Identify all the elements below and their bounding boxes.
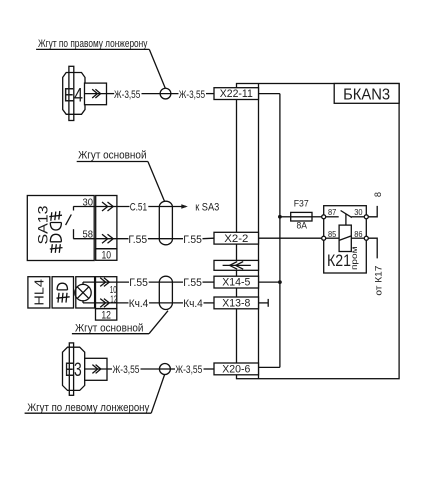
harness oval (main, lower) [159, 276, 172, 309]
svg-text:Х2-2: Х2-2 [224, 233, 248, 245]
svg-text:Г.55: Г.55 [183, 277, 202, 289]
bulb symbol [75, 284, 91, 300]
wire E3 to label [107, 368, 112, 370]
svg-text:Ж-3,55: Ж-3,55 [114, 89, 140, 101]
connector X22-11 [214, 88, 259, 100]
svg-text:8: 8 [373, 192, 383, 197]
lamp HL4 cell: designator [28, 277, 50, 308]
wire pin 58 [73, 238, 128, 240]
svg-text:12: 12 [101, 309, 111, 321]
БКАН3 label box [334, 84, 399, 104]
SA13 icon: lens 2 [50, 234, 61, 242]
svg-text:Ж-3,55: Ж-3,55 [179, 89, 205, 101]
svg-text:Г.55: Г.55 [129, 277, 148, 289]
wire through fuse [291, 216, 312, 218]
relay coil [339, 225, 351, 251]
wire through splice [160, 93, 178, 95]
svg-text:F37: F37 [294, 198, 309, 208]
wire [141, 368, 160, 370]
БКАН3 block outline [237, 84, 400, 379]
wire [142, 93, 161, 95]
terminal 30 [364, 215, 368, 219]
connector X20-6 [214, 363, 259, 375]
svg-text:Жгут основной: Жгут основной [78, 149, 146, 161]
svg-text:8А: 8А [296, 221, 307, 231]
splice circle [159, 364, 170, 375]
svg-text:Х13-8: Х13-8 [222, 298, 250, 310]
terminal 87 [322, 215, 326, 219]
relay contact blade [341, 211, 352, 218]
fuse F37 [291, 212, 312, 221]
wire: fuse F37 to relay terminal 87 [312, 216, 322, 218]
svg-text:К21: К21 [327, 252, 351, 270]
lamp E3 flange [69, 343, 73, 395]
relay actuator link [345, 214, 347, 225]
lamp E4 body [63, 73, 85, 115]
wire [148, 238, 183, 240]
HL4 connector column [96, 277, 117, 309]
connector box of E4 [85, 83, 107, 105]
svg-text:БКАN3: БКАN3 [343, 86, 390, 103]
wire to X20-6 [204, 368, 215, 370]
wire to X2-2 [203, 237, 215, 240]
harness oval (main) [159, 201, 172, 245]
svg-text:к SA3: к SA3 [195, 202, 219, 214]
HL4 icon: lens [57, 283, 67, 290]
SA13 icon: fog beams 1 [49, 211, 62, 221]
svg-text:Кч.4: Кч.4 [129, 298, 149, 310]
svg-text:С.51: С.51 [130, 202, 147, 214]
lamp E3 body [63, 347, 85, 390]
wire with arrow to SA3 [148, 206, 186, 208]
continuation symbol box [214, 260, 259, 270]
wire: X14-5 to bus [259, 281, 280, 283]
svg-text:Х14-5: Х14-5 [222, 277, 250, 289]
wire through splice [159, 368, 175, 370]
wire pin 30 [73, 206, 129, 208]
svg-text:Е3: Е3 [65, 359, 82, 381]
svg-text:Жгут по левому лонжерону: Жгут по левому лонжерону [27, 402, 150, 414]
svg-text:85: 85 [328, 229, 337, 239]
wire HL4 pin 10 [82, 282, 84, 284]
SA13 switch contact [73, 207, 75, 211]
svg-text:86: 86 [354, 229, 363, 239]
svg-text:Жгут по правому лонжерону: Жгут по правому лонжерону [38, 38, 148, 50]
svg-text:Г.55: Г.55 [128, 234, 147, 246]
relay K21 box [324, 206, 367, 273]
svg-text:HL4: HL4 [31, 279, 46, 306]
svg-text:10: 10 [102, 250, 112, 262]
wire: bus to X20-6 [259, 366, 280, 368]
svg-text:Г.55: Г.55 [183, 234, 202, 246]
wire [149, 281, 183, 283]
svg-text:30: 30 [354, 207, 363, 217]
svg-text:Жгут основной: Жгут основной [75, 322, 143, 334]
connector X2-2 [214, 232, 259, 244]
wire 85 to coil [326, 237, 340, 239]
junction dot at bus/X14-5 [278, 280, 282, 284]
leader to splice [151, 375, 164, 414]
relay contact: fixed lead from 87 [326, 216, 339, 218]
wire to X13-8 [204, 302, 215, 304]
leader to splice [149, 49, 165, 88]
connector box of E3 [85, 358, 107, 380]
svg-text:пром: пром [350, 246, 359, 270]
splice circle [160, 88, 171, 99]
БКАН3 inner connector column line [258, 84, 260, 379]
SA13 icon: lens 1 [50, 223, 61, 231]
wire: X2-2 to relay terminal 85 [259, 237, 322, 239]
terminal 86 [364, 236, 368, 240]
wire to X14-5 [203, 281, 215, 283]
svg-text:Х22-11: Х22-11 [220, 88, 253, 100]
SA13 icon: fog beams 2 [50, 244, 63, 253]
junction dot at bus/fuse wire [278, 215, 282, 219]
wire: bus to fuse F37 [280, 216, 291, 218]
HL4 icon: beams [57, 293, 70, 303]
wire [149, 302, 183, 304]
svg-text:Е4: Е4 [64, 85, 83, 107]
svg-text:SA13: SA13 [36, 206, 51, 245]
X13-8 stub terminator [259, 302, 269, 304]
wire: terminal 86 down to К17 [368, 238, 377, 258]
lamp HL4 cell: bulb [76, 277, 95, 308]
wire: internal vertical bus [279, 94, 281, 368]
svg-text:12: 12 [110, 294, 117, 305]
lamp E4 flange [69, 66, 74, 120]
HL4 pin cell 12 [96, 309, 117, 321]
svg-text:Кч.4: Кч.4 [183, 298, 203, 310]
wire HL4 pin 12 [82, 301, 84, 303]
svg-text:Ж-3,55: Ж-3,55 [113, 364, 140, 376]
switch SA13 box [27, 196, 94, 261]
svg-text:от К17: от К17 [374, 266, 385, 296]
svg-text:87: 87 [328, 207, 337, 217]
relay contact: lead to 30 [351, 216, 364, 218]
wire: X22-11 to bus [259, 93, 280, 95]
terminal 85 [322, 236, 326, 240]
wire E4 to label [107, 93, 115, 95]
svg-text:Х20-6: Х20-6 [222, 364, 250, 376]
SA13 pin cell 10 [96, 249, 117, 261]
wire coil to 86 [351, 237, 364, 239]
connector X14-5 [214, 276, 259, 288]
wire to X22-11 [206, 93, 214, 95]
wire: terminal 30 up to circuit 8 [368, 206, 377, 217]
connector X13-8 [214, 297, 259, 309]
lamp HL4 cell: icon [52, 277, 73, 308]
SA13 connector column [96, 196, 117, 249]
svg-text:Ж-3,55: Ж-3,55 [175, 364, 202, 376]
